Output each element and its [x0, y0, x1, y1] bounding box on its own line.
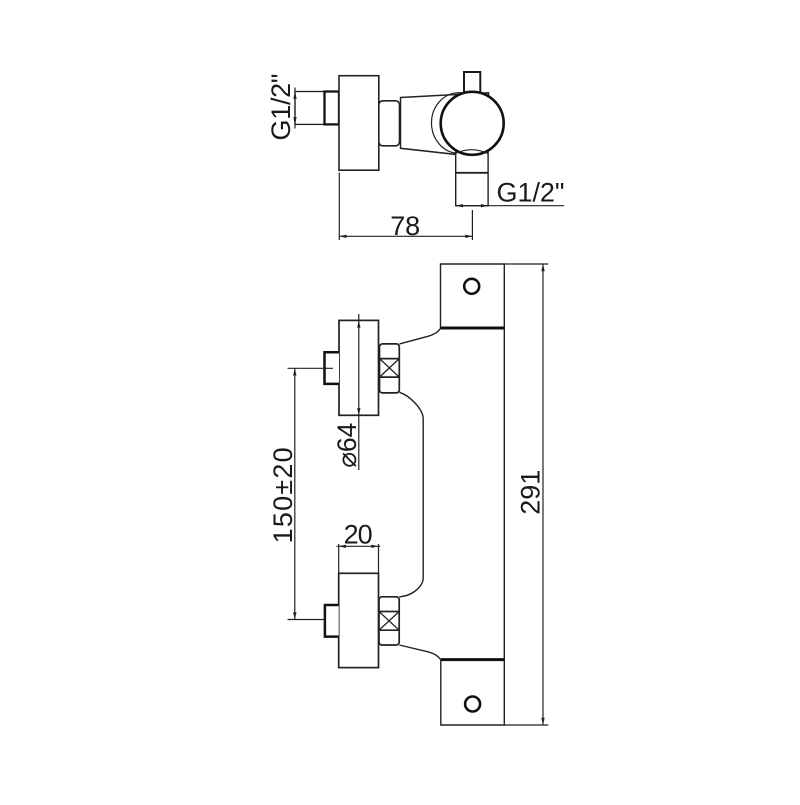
top knob cap: [325, 352, 340, 384]
body bottom S-curve: [399, 645, 441, 660]
dimension phi64: [357, 314, 360, 470]
top knob: [339, 320, 379, 415]
dimension 150±20: [288, 368, 334, 619]
bottom hatch coupling: [379, 597, 399, 645]
connector between plate and body: [379, 101, 400, 146]
dimension 78: [339, 173, 472, 241]
top hatch coupling: [380, 344, 400, 393]
svg-text:G1/2": G1/2": [497, 178, 565, 208]
bottom knob cap: [325, 605, 339, 637]
top mounting bracket: [441, 264, 505, 328]
dimension 291: [504, 264, 548, 725]
dimension 20: [337, 544, 381, 573]
bottom mounting bracket: [441, 660, 505, 725]
wall plate: [339, 76, 379, 171]
inlet dimension line with arrows: [293, 88, 296, 129]
svg-text:150±20: 150±20: [268, 447, 298, 543]
svg-text:291: 291: [516, 470, 546, 515]
bottom bracket thick top line: [441, 658, 505, 661]
body top-left S-curve: [400, 328, 441, 344]
top bracket thick base line: [441, 327, 505, 330]
svg-text:G1/2": G1/2": [266, 74, 296, 141]
ball valve circle: [441, 92, 504, 155]
svg-text:20: 20: [344, 520, 373, 550]
svg-text:78: 78: [390, 211, 420, 241]
ball-outlet intersection arc: [456, 150, 488, 154]
body left edge with curves: [399, 392, 423, 597]
bottom knob: [339, 573, 379, 667]
inlet nut: [325, 92, 340, 125]
valve body cone: [401, 93, 489, 155]
label G1/2 inlet (rotated): [266, 74, 296, 141]
cone base ellipse: [432, 93, 487, 154]
svg-text:⌀64: ⌀64: [332, 423, 362, 468]
outlet G1/2 leader line with arrows: [456, 204, 565, 207]
bottom bracket hole: [465, 697, 480, 712]
top bracket hole: [464, 279, 479, 294]
top pipe stub: [464, 72, 480, 93]
outlet pipe: [456, 150, 488, 206]
body right edge: [503, 328, 505, 660]
outlet divider line: [456, 172, 488, 174]
inlet pipe: [295, 92, 325, 125]
